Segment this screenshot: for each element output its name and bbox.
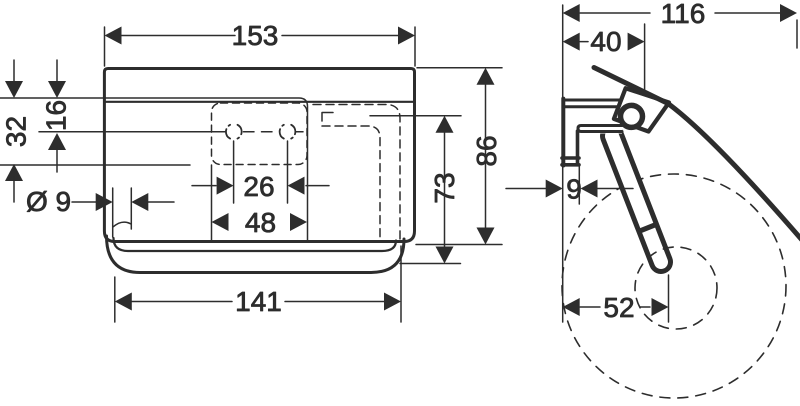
inner shell hidden edge 1 [313,105,400,241]
wall plate left edge [561,99,565,166]
dim 141 line [130,301,386,303]
cover seam lower line [104,101,414,103]
dim 52 arrow right [652,298,669,316]
dim 16 down stem [56,60,58,87]
dim 153 arrow right [398,27,415,45]
flap upper segment [594,68,668,104]
dim 86 arrow up [477,68,495,85]
dim 86 ext bottom [416,244,502,246]
screw hole right [280,125,296,139]
dim 9 tail left [506,188,548,190]
dim 52 line [580,306,650,308]
dim 153 line [121,35,398,37]
dim 141 ext right [400,246,402,322]
dim 26 arrow right [288,177,305,195]
dim 40 ext right [644,24,646,106]
dim 86 line [485,80,487,232]
dim 141 arrow right [384,293,401,311]
plate bottom extension line [0,164,190,166]
svg-text:48: 48 [245,207,276,238]
dim 26 arrow left [217,177,234,195]
lower arm backing [577,124,622,134]
screw hole left [226,125,242,139]
svg-text:32: 32 [1,116,32,147]
svg-text:73: 73 [429,172,460,203]
bar inner outline [114,238,397,251]
bar outer outline [107,236,405,273]
dim 116 arrow left [563,4,580,22]
dim 73 ext top [370,115,461,117]
dim 9 tail right [595,188,633,190]
hole centre line [39,131,226,133]
dim 153 ext left [104,27,106,66]
dim 32 up stem [13,177,15,202]
svg-text:9: 9 [566,174,582,205]
svg-text:86: 86 [471,135,502,166]
dim 73 arrow down [436,247,454,264]
dim 40 arrow left [563,33,580,51]
dim 73 line [444,128,446,251]
plate left extension line [211,165,213,241]
dim 16 down arrow [48,81,66,98]
dim 32 up arrow [5,164,23,181]
svg-text:141: 141 [235,286,282,317]
dim 52 arrow left [563,298,580,316]
dim 73 ext bottom [400,263,461,265]
dim 9 arrow left [546,180,563,198]
dim 48 arrow right [290,213,307,231]
dim d9 tail right [148,201,174,203]
inner shell hook tick [322,113,333,122]
dim 32 down stem [13,60,15,87]
dim 40 line left [580,41,588,43]
dim 26 tails [192,185,329,187]
svg-text:153: 153 [232,20,279,51]
svg-text:26: 26 [243,171,274,202]
inner shell hidden edge 2 [322,126,380,239]
dim d9 arc [113,222,131,227]
dim d9 ext right [130,188,132,229]
dim 16 up stem [56,146,58,172]
dim d9 arrow right [131,193,148,211]
svg-text:116: 116 [661,0,706,29]
dim 141 ext left [114,277,116,322]
dim 32 down arrow [5,81,23,98]
bar (roll holder rod) [612,136,661,262]
dim 141 arrow left [115,293,132,311]
dim 153 ext right [414,27,416,66]
mounting plate dashed [212,103,308,165]
dim d9 leader [72,201,100,203]
svg-text:Ø 9: Ø 9 [26,186,71,217]
flap lower segment [668,104,800,241]
dim 86 arrow down [477,228,495,245]
dim 116 ext right [796,20,798,48]
dim 9 ext right [578,166,580,204]
hinge pin ring [621,105,643,127]
wall plate foot [562,131,579,165]
dim 73 arrow up [436,116,454,133]
dim 116 line [580,12,782,14]
dim d9 arrow left [96,193,113,211]
dim 9 arrow right [581,180,598,198]
dim 48 arrow left [212,213,229,231]
dim 86 ext top [417,67,502,69]
dim 26 ext left [233,141,235,203]
svg-text:16: 16 [41,100,72,131]
cover seam top line [0,98,308,241]
top arm [563,100,624,107]
dim 153 arrow left [105,27,122,45]
roll core dashed circle [635,247,717,329]
dim 26 ext right [287,141,289,203]
bar rung [639,224,659,232]
flap hinge plate [614,88,669,131]
svg-text:40: 40 [590,26,621,57]
dim d9 ext left [112,188,114,237]
roll outer dashed circle [562,174,786,398]
lower arm [578,126,622,132]
dim 116 arrow right [780,4,797,22]
dim 16 up arrow [48,133,66,150]
dim 40 arrow right [628,33,645,51]
dim 52 ext right [668,275,670,322]
wall ext line [562,5,564,322]
svg-text:52: 52 [603,292,634,323]
body outline [104,69,414,242]
